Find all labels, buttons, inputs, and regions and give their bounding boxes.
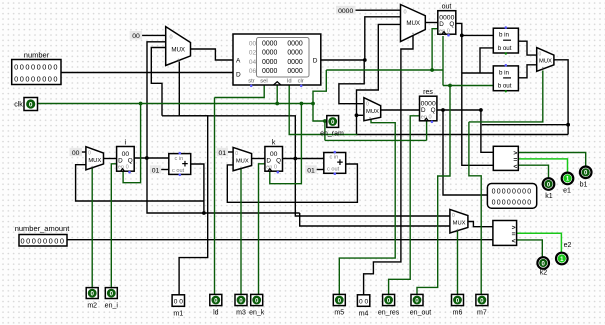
- wire MUX2 select from m4: [364, 36, 413, 295]
- svg-text:m1: m1: [173, 310, 183, 317]
- wire adder2 out loop to MUX k in1: [227, 164, 357, 202]
- svg-text:0 0: 0 0: [359, 298, 368, 305]
- svg-text:en_out: en_out: [410, 310, 431, 317]
- svg-text:b out: b out: [498, 45, 512, 52]
- constant label 00 (top): [130, 31, 142, 40]
- junction dots black: [145, 34, 570, 215]
- wire MUX3 out down: [554, 60, 568, 135]
- wire m5 riser to MUX6 select: [339, 119, 395, 294]
- wire ld pin riser: [214, 98, 216, 295]
- svg-text:k: k: [272, 139, 276, 146]
- svg-text:D: D: [421, 107, 426, 114]
- input pin en_ram: [320, 116, 344, 138]
- svg-text:Q: Q: [276, 157, 281, 164]
- input pin m5: [333, 294, 345, 316]
- wire clk bus green: [38, 103, 314, 105]
- svg-text:0: 0: [239, 297, 243, 304]
- register k: [265, 139, 283, 173]
- constant label 01 (adder1): [150, 165, 161, 174]
- svg-text:MUX: MUX: [539, 59, 552, 65]
- wire res Q to comparator1 A: [481, 110, 493, 152]
- svg-text:0: 0: [214, 297, 218, 304]
- svg-text:06: 06: [249, 68, 257, 75]
- wire out Q: [456, 23, 494, 165]
- wire out en hook: [432, 29, 437, 70]
- svg-text:D: D: [439, 21, 444, 28]
- wire k Q to MUX A1 in2: [151, 48, 165, 116]
- input pin en_res: [378, 294, 400, 316]
- svg-text:00: 00: [249, 40, 257, 47]
- wire RAM clock tap: [276, 84, 278, 104]
- svg-text:01: 01: [219, 150, 227, 157]
- svg-text:c out: c out: [172, 168, 185, 174]
- input pin m6: [452, 294, 464, 316]
- MUX res: [364, 98, 381, 121]
- svg-text:00000000: 00000000: [14, 75, 59, 84]
- svg-text:0000: 0000: [338, 8, 353, 15]
- svg-text:en_res: en_res: [378, 310, 400, 317]
- svg-text:0: 0: [480, 297, 484, 304]
- wire number_amount bus to comparator2 B: [67, 239, 493, 241]
- svg-text:04: 04: [249, 59, 257, 66]
- svg-text:0000: 0000: [262, 40, 277, 47]
- MUX k: [233, 147, 252, 170]
- wire en_ram pin link: [313, 70, 327, 121]
- wire RAM D out to MUX2 in1: [321, 17, 401, 60]
- wire RAM D branch to MUX res in0: [339, 60, 364, 104]
- wire MUX3 net tap to MUX2 in2: [357, 24, 401, 115]
- wire adder1 out loop: [191, 164, 204, 213]
- svg-text:0000: 0000: [287, 40, 302, 47]
- svg-text:clr: clr: [298, 78, 304, 84]
- wire 01 to adder2 B: [315, 169, 324, 171]
- svg-text:res: res: [423, 89, 433, 96]
- svg-text:0: 0: [539, 52, 542, 58]
- wire m2 MUX i select: [91, 168, 93, 288]
- svg-text:Q: Q: [431, 107, 436, 114]
- wire out Q to b1 in: [462, 34, 494, 36]
- wire res Q: [437, 109, 481, 111]
- wire m6 MUX7 select: [457, 231, 459, 295]
- constant label 0000 (top): [336, 6, 356, 15]
- wire b box1 lower: [480, 48, 493, 73]
- wire number bus: [61, 72, 233, 74]
- wire en_res riser: [389, 116, 420, 295]
- input pin en_i: [105, 288, 119, 310]
- wire MUX res in1: [357, 114, 364, 116]
- svg-text:A: A: [236, 58, 241, 65]
- wire m7 riser: [469, 122, 481, 295]
- input pin number_amount (8-bit): [15, 224, 71, 246]
- MUX7 (display mux): [450, 209, 468, 233]
- wire 0000 const to MUX2 in0: [355, 9, 401, 11]
- svg-text:01: 01: [152, 167, 160, 174]
- svg-text:0: 0: [338, 297, 342, 304]
- svg-text:D: D: [236, 71, 241, 78]
- svg-text:02: 02: [249, 50, 257, 57]
- constant label 00 (mux i): [70, 148, 82, 157]
- wire comparator2 lt to k2: [517, 240, 543, 257]
- wire en_ram bus to out en: [326, 69, 443, 71]
- svg-text:0000: 0000: [262, 68, 277, 75]
- svg-text:b in: b in: [499, 69, 510, 76]
- wire en_i riser: [111, 164, 116, 288]
- svg-text:0: 0: [29, 102, 33, 109]
- svg-text:0000: 0000: [287, 50, 302, 57]
- svg-text:m5: m5: [334, 310, 344, 317]
- svg-text:D: D: [313, 58, 318, 65]
- MUX i: [86, 147, 104, 170]
- input pin m3: [235, 294, 247, 316]
- svg-text:00000000: 00000000: [492, 188, 533, 195]
- output pin e2: [556, 242, 571, 264]
- svg-text:en 0: en 0: [266, 165, 277, 171]
- output pin k1: [543, 178, 555, 200]
- wire MUX7 in jog to comparator2 A: [468, 222, 493, 227]
- svg-text:0000: 0000: [262, 50, 277, 57]
- svg-text:D: D: [118, 157, 123, 164]
- svg-text:MUX: MUX: [236, 158, 249, 164]
- svg-text:00: 00: [132, 33, 140, 40]
- svg-text:0: 0: [366, 102, 369, 108]
- svg-text:Q: Q: [128, 157, 133, 164]
- svg-text:number: number: [24, 51, 50, 60]
- comparator2: [493, 221, 517, 246]
- wire 01 to adder1 B: [160, 169, 169, 171]
- svg-text:en_k: en_k: [249, 310, 265, 317]
- svg-text:m6: m6: [453, 310, 463, 317]
- svg-text:00000000: 00000000: [14, 62, 59, 71]
- input pin number (16-bit): [12, 51, 61, 85]
- svg-text:00000000: 00000000: [21, 237, 66, 246]
- output pin b1: [580, 167, 592, 189]
- svg-text:en 0: en 0: [421, 114, 432, 120]
- svg-text:str: str: [248, 78, 255, 84]
- svg-text:00000000: 00000000: [492, 199, 533, 206]
- wire RAM sel: [215, 85, 265, 98]
- wire comparator1 gt to b1: [518, 153, 585, 166]
- svg-text:0: 0: [235, 151, 238, 157]
- wire res Q to probe: [443, 110, 487, 195]
- input pin m7: [476, 294, 488, 316]
- wire 00 to MUX i in0: [79, 151, 86, 153]
- wire green y85 to b box2: [443, 85, 493, 87]
- wire MUX res out to res D: [381, 109, 420, 111]
- svg-text:0: 0: [404, 10, 407, 16]
- register i: [117, 139, 135, 173]
- svg-text:MUX: MUX: [366, 109, 379, 115]
- svg-text:out: out: [442, 3, 452, 10]
- svg-text:0: 0: [452, 213, 455, 219]
- svg-text:MUX: MUX: [406, 20, 420, 27]
- wire MUX A1 out to RAM A: [191, 49, 234, 60]
- svg-text:e1: e1: [563, 188, 571, 195]
- svg-text:<: <: [513, 163, 517, 170]
- MUX A1 (address mux): [166, 27, 191, 66]
- wire comparator2 eq to e2 bright: [517, 233, 562, 252]
- svg-text:m7: m7: [477, 310, 487, 317]
- wire MUX2 out to reg out D: [425, 22, 438, 24]
- adder1: [169, 152, 191, 176]
- comparator1: [493, 146, 518, 170]
- svg-text:0: 0: [170, 34, 173, 40]
- constant label 01 (adder2): [305, 165, 316, 174]
- svg-text:k2: k2: [540, 270, 548, 277]
- svg-text:<: <: [512, 238, 516, 245]
- wire green bus y140: [325, 139, 427, 141]
- svg-text:ld: ld: [287, 78, 292, 84]
- constant label 01 (mux k): [217, 148, 228, 157]
- register out: [438, 3, 456, 36]
- svg-text:0: 0: [387, 297, 391, 304]
- RAM block: [233, 34, 321, 87]
- wire MUX k out to reg k D: [252, 158, 265, 160]
- svg-text:MUX: MUX: [171, 47, 185, 54]
- input pin ld: [210, 294, 222, 316]
- svg-text:0: 0: [255, 297, 259, 304]
- input pin en_k: [249, 294, 265, 316]
- svg-text:Q: Q: [449, 21, 454, 28]
- input pin m4 (2-bit): [357, 295, 369, 318]
- svg-text:clk: clk: [14, 102, 23, 109]
- wire MUX i out to reg i D: [104, 158, 117, 160]
- subcircuit b box1: [493, 26, 518, 54]
- svg-text:b in: b in: [499, 32, 510, 39]
- svg-text:en_ram: en_ram: [320, 131, 344, 138]
- wire i Q to MUX A1 in1: [147, 42, 300, 213]
- svg-text:MUX: MUX: [453, 220, 466, 226]
- output pin e1: [562, 173, 574, 195]
- wire m3 MUX k select: [240, 168, 242, 295]
- svg-text:0: 0: [415, 297, 419, 304]
- svg-text:en_i: en_i: [105, 303, 119, 310]
- wire 01 to MUX k in0: [226, 151, 233, 153]
- wire en_ram branch down: [324, 121, 326, 140]
- svg-text:m3: m3: [236, 310, 246, 317]
- wire clk to reg k clock: [270, 104, 302, 184]
- svg-text:MUX: MUX: [88, 158, 101, 164]
- svg-text:0: 0: [90, 290, 94, 297]
- MUX2 (out mux, 4-input): [401, 5, 426, 42]
- svg-text:sel: sel: [260, 78, 267, 84]
- wire comparator1 lt to k1: [518, 165, 548, 177]
- svg-text:b out: b out: [498, 83, 512, 90]
- input pin clk: [14, 98, 37, 111]
- svg-text:00: 00: [72, 150, 80, 157]
- svg-text:D: D: [266, 157, 271, 164]
- input pin m1 (2-bit): [172, 295, 184, 318]
- svg-text:0: 0: [110, 290, 114, 297]
- wire comparator1 eq to e1 bright: [518, 159, 567, 172]
- wire MUX3 out branch: [482, 124, 568, 126]
- wire i Q to adder: [134, 157, 169, 159]
- svg-text:m4: m4: [359, 310, 369, 317]
- wire 00 const to MUX A1 in0: [141, 34, 166, 36]
- wire clk to reg i clock: [123, 104, 141, 183]
- svg-text:0000: 0000: [262, 59, 277, 66]
- subcircuit b box2: [493, 64, 518, 93]
- wire en_out riser: [417, 86, 450, 295]
- wire MUX3 select bright: [469, 71, 543, 122]
- input pin m2: [86, 288, 98, 310]
- wire node x299 down: [300, 213, 450, 226]
- wire k Q to adder2 A: [283, 158, 324, 160]
- svg-text:0: 0: [331, 119, 335, 126]
- wire k Q riser to y115.8: [162, 116, 450, 216]
- wire en_k riser: [259, 164, 265, 295]
- register res: [420, 89, 437, 123]
- svg-text:0: 0: [88, 151, 91, 157]
- wire out clock drop: [442, 36, 444, 86]
- svg-text:0: 0: [456, 297, 460, 304]
- svg-text:c out: c out: [327, 167, 340, 173]
- adder2: [324, 151, 346, 175]
- probe display (16-bit): [487, 184, 536, 209]
- input pin en_out: [410, 294, 431, 316]
- svg-text:01: 01: [307, 167, 315, 174]
- junction dots green: [139, 68, 452, 123]
- svg-text:e2: e2: [564, 242, 572, 249]
- wire RAM ld down: [289, 85, 357, 135]
- MUX3 (b select): [537, 48, 554, 72]
- wire res clock riser: [426, 121, 428, 141]
- wire MUX A1 select from m1: [179, 62, 208, 295]
- wire MUX res in1 riser: [357, 115, 569, 134]
- output pin k2: [537, 257, 549, 276]
- wire b box2 out to MUX3 in1: [518, 65, 536, 78]
- svg-text:ld: ld: [213, 310, 219, 317]
- svg-text:0 0: 0 0: [174, 298, 183, 305]
- svg-text:0000: 0000: [287, 59, 302, 66]
- svg-text:m2: m2: [87, 303, 97, 310]
- svg-text:k1: k1: [545, 193, 553, 200]
- svg-text:b1: b1: [580, 182, 588, 189]
- wire b box1 out to MUX3 in0: [518, 41, 536, 55]
- svg-text:number_amount: number_amount: [15, 224, 71, 233]
- svg-text:0000: 0000: [287, 68, 302, 75]
- wire adder1 loop to MUX i in1: [76, 165, 204, 201]
